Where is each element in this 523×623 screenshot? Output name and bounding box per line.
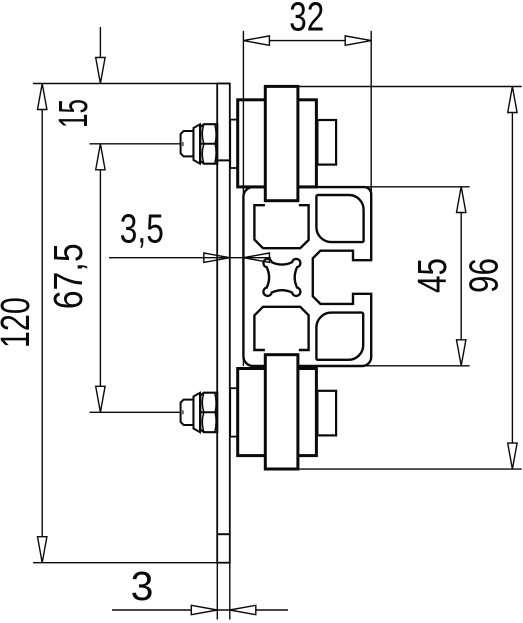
dimension 32 extension line right xyxy=(370,31,372,196)
dimension 32 extension line left xyxy=(242,31,244,187)
dimension 15 line upper xyxy=(99,27,101,84)
dimension 120 line xyxy=(41,84,43,563)
dimension 45 extension top xyxy=(364,186,470,188)
profile body (32x45 extrusion outline with right T-slot) xyxy=(243,187,371,366)
leader 3,5 arrow left-pointing at profile xyxy=(243,253,269,262)
top roller xyxy=(238,100,317,187)
bolt 2 end tick xyxy=(182,410,184,414)
dimension 120 arrow top xyxy=(38,84,47,110)
extension line plate top (15/120) xyxy=(33,83,230,85)
dimension 3 arrow right-pointing xyxy=(191,605,217,614)
dimension 45 arrow bottom xyxy=(457,340,466,366)
dimension 96 extension top xyxy=(298,86,522,88)
svg-text:120: 120 xyxy=(0,297,38,348)
top roller cap xyxy=(317,120,336,165)
dimension 32 extension right through corner arc xyxy=(370,188,372,197)
extension line bolt1 center xyxy=(90,143,184,145)
dimension 67,5 arrow bottom xyxy=(96,386,105,412)
dimension 67,5 line xyxy=(99,144,101,413)
dimension 3 extension left (plate) xyxy=(216,563,218,620)
dimension 45 arrow top xyxy=(457,187,466,213)
dimension 96 arrow top xyxy=(508,87,517,113)
dimension 15 arrow (down, tip at plate top) xyxy=(96,58,105,84)
svg-text:67,5: 67,5 xyxy=(45,243,91,309)
dimension 96 extension bottom xyxy=(298,468,522,470)
plate (3mm mounting plate) xyxy=(217,84,230,563)
top roller hub xyxy=(265,86,298,200)
dimension 32 arrow right xyxy=(345,36,371,45)
svg-text:3: 3 xyxy=(131,563,154,609)
bottom-left cavity (octagon) xyxy=(254,307,308,350)
dimension 67,5 arrow top xyxy=(96,144,105,170)
bolt 1 end tick xyxy=(182,142,184,146)
dimension 96 arrow bottom xyxy=(508,443,517,469)
dimension 3 arrow left-pointing xyxy=(230,605,256,614)
dimension 96 line xyxy=(511,87,513,470)
dimension 32 arrow left xyxy=(243,36,269,45)
bolt 2 facet arcs xyxy=(202,393,216,432)
bolt 2 flange xyxy=(194,393,201,432)
dimension 3 extension right (plate) xyxy=(229,563,231,620)
extension line plate bottom (120) xyxy=(33,562,230,564)
bolt 1 shank lower silhouette through plate xyxy=(215,159,231,161)
plate cross line near bottom xyxy=(217,533,230,535)
washer 2 (between plate and bottom roller) xyxy=(230,388,237,436)
top-right cavity (squircle) xyxy=(316,195,363,242)
central star screw channel xyxy=(263,259,300,296)
bolt 1 hex nut xyxy=(200,124,217,164)
bolt 2 hex nut xyxy=(200,393,217,433)
bolt 1 hex midline xyxy=(200,143,217,145)
bottom roller cap xyxy=(317,391,336,436)
top-left cavity (octagon) xyxy=(254,205,308,248)
dimension 45 line xyxy=(460,187,462,366)
washer 1 (between plate and top roller) xyxy=(230,120,237,168)
bottom roller hub xyxy=(265,355,298,469)
bolt 1 flange xyxy=(194,124,201,163)
dimension 32 extension left over top roller xyxy=(242,98,244,188)
bolt 2 hex midline xyxy=(200,411,217,413)
extension line bolt2 center xyxy=(90,411,184,413)
dimension 3 line xyxy=(112,609,288,611)
bottom roller xyxy=(238,369,317,456)
svg-text:32: 32 xyxy=(289,0,324,39)
leader 3,5 line xyxy=(109,257,271,259)
svg-text:3,5: 3,5 xyxy=(120,206,164,252)
leader 3,5 arrow right-pointing at plate xyxy=(204,253,230,262)
svg-text:45: 45 xyxy=(409,258,455,293)
bolt 1 end cylinder xyxy=(181,131,194,156)
dimension 32 line xyxy=(243,40,371,42)
svg-text:96: 96 xyxy=(461,258,507,293)
dimension 120 arrow bottom xyxy=(38,537,47,563)
svg-text:15: 15 xyxy=(50,99,96,128)
bolt 1 facet arcs xyxy=(202,124,216,163)
dimension 45 extension bottom xyxy=(362,365,470,367)
bolt 2 end cylinder xyxy=(181,400,194,425)
extension line segments through left corner radii xyxy=(242,187,244,198)
bottom-right cavity (squircle) xyxy=(316,313,363,360)
